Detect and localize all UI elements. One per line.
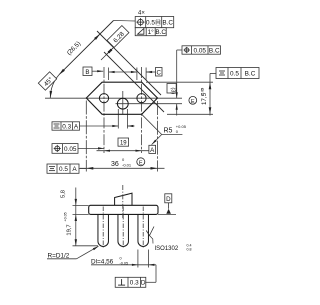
svg-text:C: C [156,69,161,76]
svg-text:D: D [166,196,171,203]
feature control frame position 0.05 [52,144,78,154]
svg-text:0.5Ⓜ: 0.5Ⓜ [146,18,162,26]
wire vertical centerline left hole x=104 [103,67,105,153]
wire extension lines lead 3 [137,250,139,268]
wire extension line lead bottom [73,245,99,247]
dimension 5,8 flange thickness and 19,7 lead length [75,188,77,246]
svg-text:0.05: 0.05 [64,146,77,153]
wire extension line left hole right edge [108,68,110,81]
cap edge line1 with (26,5) dimension [59,21,114,75]
right mounting hole [137,94,146,103]
svg-text:A: A [74,123,79,130]
wire extension line flange bottom right [158,213,176,215]
wire extension lines right hole diameter [136,68,138,81]
svg-text:4×: 4× [138,11,145,17]
cap side view [115,193,132,205]
wire vertical centerline center x=122.8 [122,91,124,115]
svg-text:0.5: 0.5 [59,166,68,173]
svg-text:(3): (3) [170,87,176,94]
dimension 19 hole spacing [97,150,149,152]
svg-text:D: D [141,280,146,287]
svg-text:1°: 1° [148,28,155,36]
left mounting hole [99,94,108,103]
svg-text:19,7: 19,7 [67,224,73,235]
svg-text:0.3: 0.3 [130,280,139,287]
wire extension line hexagon bottom edge right [167,113,213,115]
svg-text:+0.05: +0.05 [64,212,68,221]
svg-text:ISO1302: ISO1302 [155,246,179,252]
label (3) boxed rotated [167,84,176,94]
dimension 17,5 flange height [209,74,211,116]
dimension 6,28 between edges [101,40,121,60]
wire horizontal centerline of center hole y=103.7 [116,103,183,105]
modifier circle E right [189,96,197,104]
svg-text:R5: R5 [164,128,173,135]
leader to perpendicularity frame [155,265,157,283]
lead 3 [138,214,149,246]
svg-text:0.3: 0.3 [62,123,71,130]
lead 2 [118,214,129,246]
label (26,5) [66,40,83,57]
cap edge D1 [104,52,164,112]
wire extension lines center hole diameter [117,109,119,129]
wire extension line left tip [85,101,87,172]
leader from frame to (3) dimension [177,49,182,51]
feature control frame symmetry 0.5 B.C [216,68,259,79]
dimension line between holes at y=72 [109,71,137,73]
datum D triangle and box [166,209,171,214]
svg-text:Dl=4,56: Dl=4,56 [91,258,114,265]
hexagon flange outline [86,82,157,114]
modifier circle E bottom [137,158,145,166]
svg-text:B.C: B.C [155,29,166,36]
svg-text:0: 0 [122,157,125,162]
svg-text:B.C: B.C [245,70,256,77]
svg-text:0.8: 0.8 [187,247,192,251]
flange bar side view [89,205,158,214]
svg-text:E: E [139,160,143,166]
cap edge D2 [97,31,161,95]
svg-text:B.C: B.C [209,47,220,54]
dimension 36 flange width [80,167,165,169]
svg-text:5,8: 5,8 [61,190,67,198]
svg-text:B: B [85,69,89,76]
wire extension line right tip [157,101,159,172]
svg-text:36: 36 [111,161,119,168]
lead 2 centerline [122,207,124,249]
feature control frame position 0.5 M B.C [135,17,174,28]
feature control frame symmetry 0.3 A [52,122,80,130]
svg-text:19: 19 [120,141,127,147]
svg-text:A: A [150,147,155,154]
leader top vertex to frame [114,20,136,23]
svg-text:B.C: B.C [162,19,173,26]
label 19 boxed [118,138,129,146]
leader to 17,5 dimension [210,73,216,75]
datum box A [149,145,156,153]
package centerline [122,185,124,218]
svg-text:0.05: 0.05 [194,47,207,54]
wire extension lines flange left [73,205,89,207]
center hole [117,98,128,109]
wire extension line hexagon top edge right [146,81,213,83]
datum box C [156,68,163,77]
wire horizontal centerline of mounting holes y=98.2 [45,97,182,99]
surface finish symbol on lead 3 [146,227,154,236]
lead 3 centerline [142,207,144,249]
label 6,28 boxed [107,26,129,48]
svg-text:-0.05: -0.05 [201,88,205,96]
feature control frame perpendicularity 0.3 D [115,277,146,287]
45 degree angle arc [50,75,59,98]
svg-text:0: 0 [120,257,122,261]
wire vertical centerline right hole x=141.5 [141,67,143,153]
feature control frame symmetry 0.5 A [47,164,79,173]
svg-text:A: A [72,166,77,173]
lead 1 [98,214,109,246]
svg-text:0: 0 [176,129,179,134]
datum box B [83,67,92,76]
lead 1 centerline [102,207,104,249]
svg-text:0.5: 0.5 [230,70,239,77]
label 45 boxed [38,72,56,90]
svg-text:-0.01: -0.01 [122,163,132,168]
feature control frame angularity 1 B.C [135,28,166,36]
svg-text:E: E [191,99,195,105]
feature control frame position 0.05 B.C [182,46,221,54]
